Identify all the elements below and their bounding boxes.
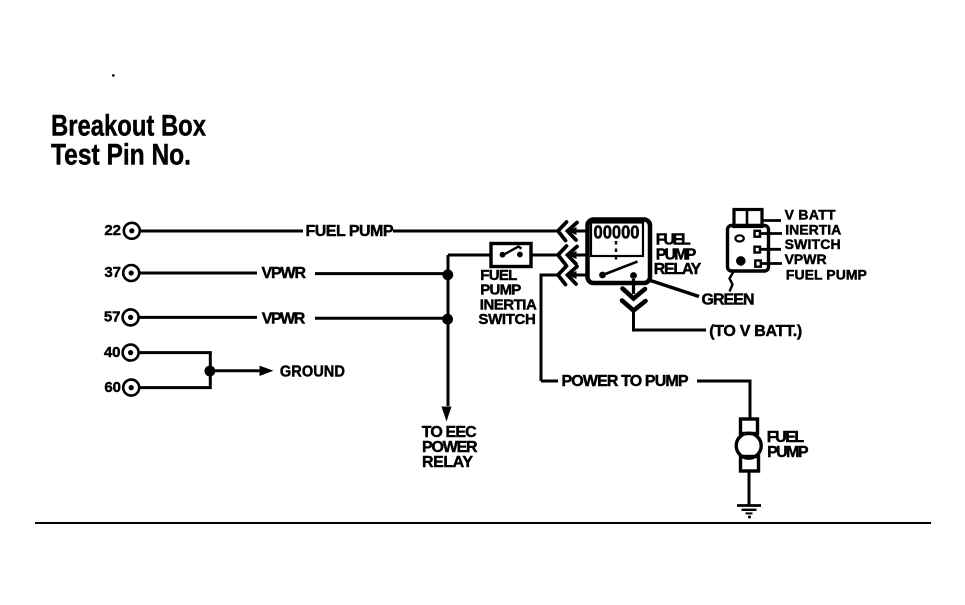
svg-text:GROUND: GROUND: [280, 364, 345, 381]
svg-text:00000: 00000: [594, 223, 640, 243]
svg-text:37: 37: [104, 264, 121, 281]
svg-text:VPWR: VPWR: [785, 251, 827, 267]
svg-text:SWITCH: SWITCH: [478, 311, 536, 328]
svg-text:V BATT: V BATT: [785, 207, 836, 223]
svg-text:(TO V BATT.): (TO V BATT.): [709, 323, 802, 340]
svg-text:POWER TO PUMP: POWER TO PUMP: [562, 373, 689, 390]
svg-text:FUEL PUMP: FUEL PUMP: [786, 267, 867, 283]
svg-text:PUMP: PUMP: [767, 444, 809, 461]
svg-text:RELAY: RELAY: [654, 261, 702, 278]
svg-text:Test Pin No.: Test Pin No.: [51, 139, 191, 172]
svg-text:60: 60: [104, 379, 121, 396]
svg-text:VPWR: VPWR: [262, 265, 307, 282]
svg-text:40: 40: [104, 344, 121, 361]
svg-text:57: 57: [104, 309, 121, 326]
svg-text:RELAY: RELAY: [422, 454, 473, 471]
svg-text:VPWR: VPWR: [262, 311, 306, 328]
svg-text:FUEL PUMP: FUEL PUMP: [306, 223, 394, 240]
svg-text:22: 22: [104, 222, 121, 239]
svg-text:SWITCH: SWITCH: [785, 236, 841, 252]
svg-text:GREEN: GREEN: [702, 292, 755, 309]
